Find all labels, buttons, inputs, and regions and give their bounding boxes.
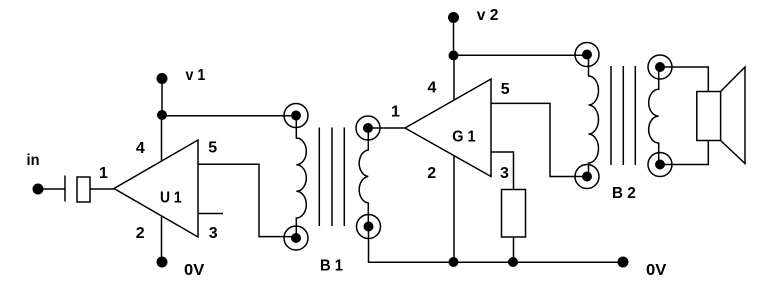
svg-text:B 1: B 1 [320,258,343,275]
svg-text:v 2: v 2 [477,7,499,24]
svg-text:5: 5 [208,140,217,157]
svg-text:0V: 0V [184,262,205,279]
svg-text:U 1: U 1 [160,190,182,207]
svg-text:0V: 0V [646,262,667,279]
svg-text:v 1: v 1 [186,67,206,84]
svg-text:in: in [27,152,40,169]
svg-text:4: 4 [428,80,437,97]
svg-text:G 1: G 1 [452,128,475,145]
svg-text:2: 2 [136,225,145,242]
svg-text:3: 3 [209,225,218,242]
svg-text:B 2: B 2 [612,185,636,202]
svg-text:5: 5 [501,81,510,98]
svg-text:1: 1 [391,103,400,120]
svg-text:2: 2 [427,165,436,182]
svg-text:3: 3 [500,165,509,182]
svg-text:4: 4 [136,140,145,157]
svg-text:1: 1 [99,165,108,182]
